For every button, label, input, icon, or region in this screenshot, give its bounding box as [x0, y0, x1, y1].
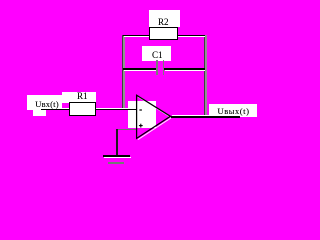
label Uvx(t) — [30, 100, 64, 109]
ground — [103, 155, 130, 157]
label Uvyx(t) — [216, 107, 251, 116]
capacitor C1 plate left — [156, 60, 158, 75]
wire R2 top horizontal — [123, 35, 205, 36]
wire feedback right rail — [204, 35, 206, 118]
wire C1 left highlight — [124, 69, 156, 72]
wire output highlight — [172, 115, 240, 116]
wire input — [41, 109, 137, 111]
node Uvyx label background — [209, 104, 257, 118]
wire output — [170, 116, 240, 118]
wire noninverting input — [116, 129, 137, 130]
label R2 — [155, 18, 171, 27]
wire feedback left rail — [122, 35, 124, 111]
capacitor C1 plate right — [163, 60, 165, 75]
op-amp U1 — [0, 0, 286, 184]
wire ground vertical — [116, 129, 118, 156]
resistor R2 label background — [149, 10, 180, 27]
resistor R1 body — [69, 102, 96, 116]
wire R2 top highlight — [124, 36, 205, 37]
label C1 — [149, 51, 165, 60]
wire C1 right — [164, 68, 205, 69]
resistor R2 body — [149, 27, 178, 40]
wire C1 left — [123, 68, 156, 69]
wire C1 right highlight — [165, 69, 205, 72]
wire input highlight — [42, 107, 137, 110]
op-amp plus input — [139, 125, 143, 127]
capacitor C1 label background — [142, 46, 172, 61]
label R1 — [74, 92, 90, 101]
resistor R1 label background — [62, 92, 96, 103]
node Uvx label tab — [33, 110, 46, 116]
node Uvx label background — [27, 95, 63, 110]
op-amp U1 background — [128, 101, 156, 128]
op-amp minus input — [139, 109, 142, 111]
